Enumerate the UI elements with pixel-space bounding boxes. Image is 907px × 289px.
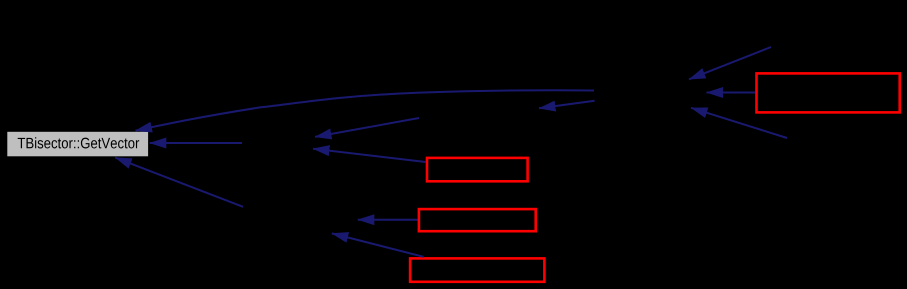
- edge E2: hidden node N1 to hidden node N2: [539, 101, 595, 109]
- edge E10: red node R4 to N4 bottom edge: [332, 233, 424, 256]
- red node R2 (middle): [427, 158, 528, 181]
- edge E9: red node R3 to hidden node N4: [358, 219, 418, 221]
- red node R4 (bottom): [410, 258, 544, 281]
- edge E8: hidden node N3 to grey node right edge: [150, 142, 242, 144]
- node TBisector::GetVector (grey filled): [7, 131, 149, 156]
- edge E3: hidden node N5 (top right) to N1 top edge: [689, 47, 771, 79]
- edge E11: hidden node N4 to grey node bottom edge: [115, 158, 243, 207]
- edge E5: hidden node N6 (bottom right) to N1 bottom edge: [691, 108, 787, 138]
- red node R1 (top right): [757, 73, 900, 112]
- red node R3: [419, 209, 536, 231]
- edge E6: hidden node N2 to hidden node N3: [315, 118, 419, 137]
- edge E4: red node R1 to N1 right edge: [707, 92, 756, 94]
- edge E1: hidden node N1 to grey node top (long curve): [136, 90, 595, 130]
- edge E7: red node R2 to N3 right edge: [313, 149, 426, 162]
